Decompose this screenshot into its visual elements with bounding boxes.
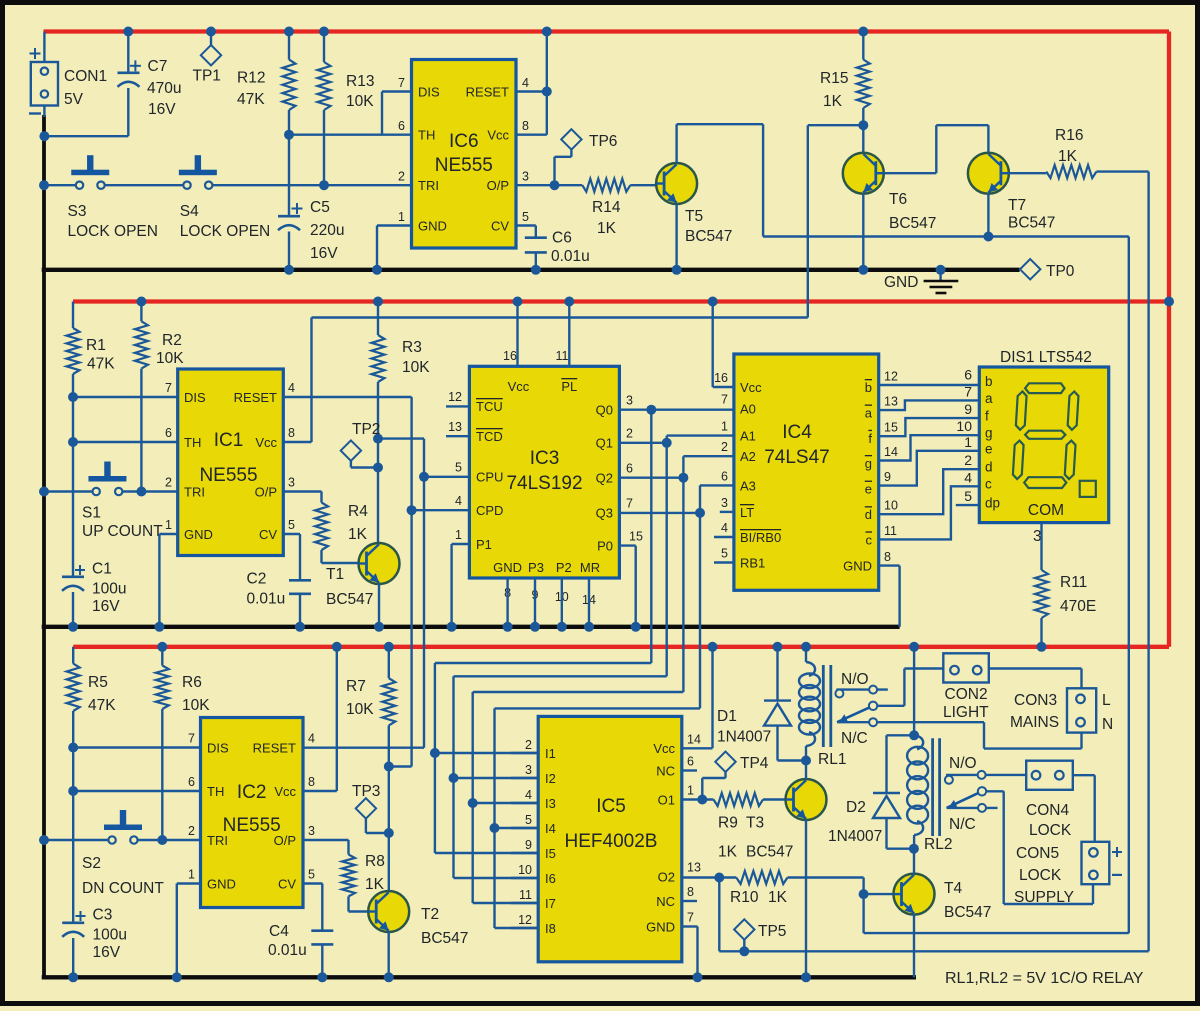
svg-text:TRI: TRI [184, 485, 205, 500]
svg-text:N/O: N/O [949, 755, 977, 772]
svg-text:DN COUNT: DN COUNT [82, 880, 164, 897]
svg-text:Vcc: Vcc [274, 784, 296, 799]
capacitor C4 0.01u [303, 882, 323, 884]
wire T3 emitter to ground [805, 820, 807, 978]
wire IC2 RESET to clock net [303, 747, 424, 749]
svg-text:DIS1 LTS542: DIS1 LTS542 [1000, 349, 1092, 366]
svg-text:T5: T5 [685, 208, 703, 225]
wire T4 collector [913, 849, 915, 874]
svg-text:RL2: RL2 [924, 836, 952, 853]
wire P1 pin1 to ground [452, 543, 470, 545]
svg-text:47K: 47K [88, 697, 116, 714]
svg-text:15: 15 [884, 421, 898, 435]
wire IC6 GND pin1 to ground [377, 224, 412, 226]
wire clock branch to CPU and IC2 RESET [378, 437, 424, 439]
svg-text:TH: TH [207, 784, 224, 799]
wire IC3 GND pin8 [506, 578, 508, 627]
test point TP2 [341, 440, 361, 460]
svg-text:I5: I5 [545, 846, 556, 861]
transistor T2 BC547 [368, 891, 409, 932]
wire ground top rail (black) [42, 268, 1020, 272]
svg-text:T3: T3 [746, 815, 764, 832]
svg-text:RESET: RESET [253, 741, 296, 756]
junction R6/TRI2 [157, 835, 167, 845]
svg-text:1N4007: 1N4007 [828, 828, 882, 845]
svg-text:d: d [985, 460, 993, 475]
resistor R8 1K [342, 855, 355, 897]
wire f segment 15 [879, 418, 981, 436]
pin stub RL2 N/C [947, 807, 998, 809]
junction IC2 gnd [172, 972, 182, 982]
svg-text:C2: C2 [247, 571, 267, 588]
svg-text:NE555: NE555 [435, 155, 493, 176]
svg-text:GND: GND [207, 877, 236, 892]
wire T7 emitter junction [987, 194, 989, 237]
svg-text:3: 3 [522, 170, 529, 184]
svg-text:7: 7 [687, 911, 694, 925]
svg-text:BC547: BC547 [1008, 215, 1055, 232]
svg-text:TP4: TP4 [740, 755, 769, 772]
junction T4 base [859, 889, 869, 899]
svg-text:S4: S4 [180, 203, 199, 220]
junction T2 emitter gnd [384, 972, 394, 982]
junction R7/TP3 [384, 828, 394, 838]
svg-text:2: 2 [398, 170, 405, 184]
wire +5V middle rail (red) [73, 299, 1169, 303]
svg-text:SUPPLY: SUPPLY [1014, 889, 1074, 906]
svg-text:LOCK OPEN: LOCK OPEN [68, 223, 158, 240]
wire T3 collector to RL1 [805, 761, 807, 780]
svg-text:11: 11 [556, 349, 569, 363]
svg-text:9: 9 [525, 838, 532, 852]
svg-text:4: 4 [288, 381, 295, 395]
wire g segment 14 [879, 435, 981, 460]
svg-text:7: 7 [626, 497, 633, 511]
svg-text:9: 9 [884, 470, 891, 484]
junction C1 ground [68, 622, 78, 632]
svg-text:6: 6 [964, 367, 972, 383]
wire R14 to T5 base [630, 184, 656, 186]
svg-text:RB1: RB1 [740, 556, 765, 571]
svg-text:8: 8 [288, 426, 295, 440]
svg-text:3: 3 [721, 496, 728, 510]
svg-text:6: 6 [188, 775, 195, 789]
svg-text:O/P: O/P [255, 485, 277, 500]
junction CPU branch [419, 472, 429, 482]
svg-text:16V: 16V [148, 101, 176, 118]
svg-text:2: 2 [964, 452, 972, 468]
svg-text:LOCK: LOCK [1019, 867, 1062, 884]
svg-text:T1: T1 [326, 566, 344, 583]
svg-text:f: f [868, 431, 872, 446]
svg-text:12: 12 [884, 370, 898, 384]
wire IC5 Vcc pin14 to +5V [682, 747, 713, 749]
svg-text:0.01u: 0.01u [268, 942, 307, 959]
resistor R12 47K [288, 32, 290, 60]
wire IC4 Vcc pin16 to +5V [712, 302, 714, 388]
svg-text:2: 2 [525, 738, 532, 752]
svg-text:6: 6 [626, 462, 633, 476]
relay RL2 coil [914, 735, 923, 749]
svg-text:CPD: CPD [476, 503, 503, 518]
svg-text:6: 6 [165, 426, 172, 440]
wire IC3 P3 pin9 [534, 578, 536, 627]
svg-text:47K: 47K [87, 356, 115, 373]
svg-text:5: 5 [522, 210, 529, 224]
svg-text:11: 11 [884, 524, 897, 538]
svg-text:A1: A1 [740, 429, 756, 444]
svg-text:0.01u: 0.01u [247, 591, 286, 608]
junction dots on bottom +5V rail [157, 642, 167, 652]
svg-text:N/C: N/C [841, 730, 868, 747]
svg-text:13: 13 [448, 420, 462, 434]
svg-text:a: a [865, 406, 873, 421]
wire e segment 9 [879, 451, 981, 486]
svg-text:MR: MR [580, 560, 600, 575]
svg-text:1K: 1K [718, 844, 738, 861]
svg-text:TCU: TCU [476, 399, 503, 414]
wire ground bottom rail (black) [42, 975, 916, 979]
svg-text:COM: COM [1028, 502, 1064, 519]
junction TP6/OP [550, 180, 560, 190]
svg-text:S3: S3 [68, 203, 87, 220]
svg-text:TP1: TP1 [193, 68, 221, 85]
wire CON2 to CON3 [989, 667, 1082, 669]
connector CON2 [943, 653, 989, 682]
svg-text:GND: GND [884, 274, 918, 291]
wire IC6 RESET4-Vcc8 to +5V [516, 90, 547, 92]
svg-text:T6: T6 [889, 191, 907, 208]
counter IC3 74LS192 box [469, 366, 619, 578]
svg-text:3: 3 [525, 763, 532, 777]
svg-text:R11: R11 [1060, 574, 1087, 591]
svg-text:HEF4002B: HEF4002B [565, 831, 658, 852]
svg-text:1K: 1K [768, 889, 788, 906]
svg-text:CON2: CON2 [945, 686, 988, 703]
svg-text:220u: 220u [310, 222, 344, 239]
svg-text:4: 4 [455, 494, 462, 508]
svg-text:I4: I4 [545, 821, 556, 836]
svg-text:15: 15 [629, 530, 643, 544]
junction gnd symbol [936, 265, 946, 275]
wire T1 emitter [378, 584, 380, 627]
wire IC3 PL pin11 to +5V [568, 302, 570, 367]
svg-text:TP6: TP6 [589, 133, 617, 150]
svg-text:IC5: IC5 [596, 796, 626, 817]
wire COM to R11 [1040, 523, 1042, 570]
wire DIS line IC2 [73, 746, 200, 748]
wire O1 to R9 [682, 798, 714, 800]
resistor R16 1K [1046, 165, 1096, 178]
svg-text:74LS192: 74LS192 [506, 473, 582, 494]
wire RL1 pole to CON2 [877, 705, 905, 707]
connector CON1 [43, 32, 45, 63]
svg-text:D1: D1 [717, 708, 737, 725]
wire Q1 to A1 and I2/I6 bus [619, 442, 666, 444]
svg-text:14: 14 [884, 445, 898, 459]
svg-text:10K: 10K [182, 697, 210, 714]
svg-text:e: e [865, 482, 872, 497]
test point TP5 [734, 919, 754, 939]
svg-text:I7: I7 [545, 896, 556, 911]
junction reset/vcc [542, 87, 552, 97]
svg-text:c: c [866, 532, 873, 547]
svg-text:GND: GND [184, 527, 213, 542]
junction C2 gnd [295, 622, 305, 632]
svg-text:TP5: TP5 [758, 923, 786, 940]
junction T1 emitter gnd [374, 622, 384, 632]
wire +5V bottom rail (red) [73, 645, 1169, 649]
wire T5 collector to T4 base net [675, 124, 677, 163]
svg-text:5: 5 [964, 488, 972, 504]
svg-text:1: 1 [721, 420, 728, 434]
junction dots on middle +5V rail [136, 297, 146, 307]
junction IC6 gnd [372, 265, 382, 275]
wire CPU pin5 IC3 [424, 476, 469, 478]
svg-text:100u: 100u [93, 927, 127, 944]
resistor R5 47K [72, 647, 74, 664]
svg-text:12: 12 [518, 913, 532, 927]
svg-text:1N4007: 1N4007 [717, 729, 771, 746]
svg-text:5: 5 [455, 461, 462, 475]
svg-text:O2: O2 [658, 870, 675, 885]
junction R5/DIS2 [68, 743, 78, 753]
svg-text:CV: CV [491, 219, 509, 234]
svg-text:1: 1 [188, 868, 195, 882]
wire +5V to RL2 coil [913, 647, 915, 736]
svg-text:16: 16 [503, 349, 517, 363]
svg-text:16: 16 [714, 371, 728, 385]
junction R12/TH [284, 130, 294, 140]
svg-text:T7: T7 [1008, 197, 1026, 214]
svg-text:0.01u: 0.01u [551, 248, 590, 265]
svg-text:R13: R13 [346, 73, 374, 90]
transistor T4 BC547 [894, 874, 935, 915]
svg-text:TH: TH [184, 435, 201, 450]
svg-text:RESET: RESET [234, 390, 277, 405]
svg-text:D2: D2 [846, 799, 866, 816]
svg-text:R3: R3 [402, 339, 422, 356]
wire IC3 Vcc pin16 to +5V [516, 302, 518, 367]
svg-text:P0: P0 [597, 539, 613, 554]
junction dots on top +5V rail [123, 27, 133, 37]
svg-text:7: 7 [964, 383, 972, 399]
test point TP4 [715, 752, 735, 772]
switch S2 [44, 839, 108, 841]
pin stub TCD 13 [446, 435, 469, 437]
svg-text:R1: R1 [86, 337, 106, 354]
wire +5V right vertical rail (red) [1167, 32, 1171, 647]
svg-text:5: 5 [288, 518, 295, 532]
svg-text:TRI: TRI [207, 833, 228, 848]
svg-text:b: b [985, 374, 993, 389]
wire Q0 to A0 and I1/I5 bus [619, 409, 734, 411]
wire IC2 GND to ground [177, 882, 201, 884]
wire IC2 OP to R8 [303, 839, 349, 841]
wire T5 emitter to ground [675, 204, 677, 270]
svg-text:10: 10 [518, 863, 532, 877]
svg-text:LOCK OPEN: LOCK OPEN [180, 223, 270, 240]
svg-text:3: 3 [626, 394, 633, 408]
switch S3 [44, 184, 76, 186]
junction RESET/CPD [407, 505, 417, 515]
svg-text:2: 2 [721, 440, 728, 454]
svg-text:P2: P2 [556, 560, 572, 575]
svg-text:1: 1 [687, 784, 694, 798]
pin stub TCU 12 [446, 405, 469, 407]
svg-text:O/P: O/P [274, 833, 296, 848]
svg-text:e: e [985, 442, 993, 457]
wire d segment 10 [879, 469, 981, 514]
svg-text:1: 1 [455, 528, 462, 542]
svg-text:R14: R14 [592, 199, 621, 216]
svg-text:Vcc: Vcc [653, 741, 675, 756]
svg-text:LOCK: LOCK [1029, 822, 1072, 839]
wire Q2 to A2 and I3/I7 bus [619, 477, 683, 479]
svg-text:I1: I1 [545, 746, 556, 761]
junction S1 ground rail [39, 487, 49, 497]
transistor T5 BC547 [656, 163, 697, 204]
wire DIS line IC1 [73, 396, 178, 398]
svg-text:TCD: TCD [476, 429, 503, 444]
wire IC3 P2 pin10 [561, 578, 563, 627]
svg-text:BC547: BC547 [421, 930, 468, 947]
svg-text:DIS: DIS [184, 390, 206, 405]
svg-text:BC547: BC547 [685, 228, 732, 245]
svg-text:C7: C7 [148, 58, 168, 75]
wire T7 base to R16 [1009, 172, 1047, 174]
svg-text:TP3: TP3 [352, 783, 380, 800]
svg-text:GND: GND [646, 920, 675, 935]
resistor R14 1K [582, 179, 630, 192]
wire IC5 GND pin7 to ground [682, 925, 698, 927]
test point TP6 [561, 129, 581, 149]
svg-text:C6: C6 [552, 230, 572, 247]
svg-text:CON5: CON5 [1016, 845, 1059, 862]
svg-text:4: 4 [522, 76, 529, 90]
svg-text:A0: A0 [740, 402, 756, 417]
junction O2/R16 net [714, 873, 724, 883]
svg-text:I6: I6 [545, 871, 556, 886]
junction RL2/T4/D2 [909, 844, 919, 854]
svg-text:RESET: RESET [466, 85, 509, 100]
junction O1/TP4 [697, 795, 707, 805]
wire S2 to TRI IC2 [138, 839, 201, 841]
svg-text:a: a [985, 391, 993, 406]
resistor R13 10K [323, 32, 325, 63]
svg-text:470u: 470u [147, 80, 181, 97]
junction R7/IC1-RESET net [384, 762, 394, 772]
svg-text:DIS: DIS [207, 741, 229, 756]
svg-text:74LS47: 74LS47 [764, 447, 830, 468]
svg-text:BC547: BC547 [889, 215, 936, 232]
relay RL1 coil [805, 647, 807, 662]
svg-text:R5: R5 [88, 674, 108, 691]
capacitor C6 0.01u [516, 224, 536, 226]
wire TH-DIS link IC6 [289, 133, 382, 135]
wire S4 to TRI IC6 [212, 184, 411, 186]
svg-text:7: 7 [398, 76, 405, 90]
svg-text:3: 3 [308, 824, 315, 838]
svg-text:4: 4 [721, 521, 728, 535]
svg-text:6: 6 [721, 469, 728, 483]
wire IC6 O/P to R14 [516, 184, 582, 186]
svg-text:2: 2 [165, 476, 172, 490]
svg-text:LIGHT: LIGHT [943, 704, 989, 721]
wire c segment 11 [879, 486, 981, 539]
svg-text:1K: 1K [365, 876, 385, 893]
test point TP0 [1020, 259, 1040, 279]
svg-text:TP2: TP2 [352, 421, 380, 438]
svg-text:S2: S2 [82, 855, 101, 872]
svg-text:IC3: IC3 [530, 448, 560, 469]
transistor T1 BC547 [359, 543, 400, 584]
junction R5/TH2 [68, 786, 78, 796]
junction RL2 coil top [909, 730, 919, 740]
svg-text:Q2: Q2 [596, 471, 613, 486]
op-amp IC6 NE555 box [412, 60, 517, 249]
wire R16 to O2 net [1096, 170, 1148, 172]
svg-text:GND: GND [493, 560, 522, 575]
svg-text:5: 5 [308, 868, 315, 882]
wire IC3 MR pin14 [588, 578, 590, 627]
connector CON3 [1067, 688, 1096, 732]
junction R15/T6 collector [858, 120, 868, 130]
svg-text:1K: 1K [348, 526, 368, 543]
junction T5 emitter [672, 265, 682, 275]
wire Q3 to A3 and I4/I8 bus [619, 512, 700, 514]
svg-text:R6: R6 [182, 674, 202, 691]
wire IC1 RESET to CPD/R7 net [283, 396, 411, 398]
svg-text:4: 4 [308, 732, 315, 746]
svg-text:13: 13 [687, 861, 701, 875]
svg-text:I3: I3 [545, 796, 556, 811]
svg-text:T2: T2 [421, 906, 439, 923]
svg-text:4: 4 [525, 788, 532, 802]
svg-text:T4: T4 [944, 880, 962, 897]
junction C3 ground [68, 972, 78, 982]
pin stub NC 6 [682, 769, 697, 771]
svg-text:TH: TH [418, 128, 435, 143]
junction R3/clock branch [373, 434, 383, 444]
svg-text:8: 8 [522, 119, 529, 133]
svg-text:IC1: IC1 [214, 430, 244, 451]
junction C6 gnd [531, 265, 541, 275]
capacitor C1 100u [62, 575, 84, 578]
junction R13/TRI [319, 180, 329, 190]
svg-text:LT: LT [740, 505, 754, 520]
svg-text:O1: O1 [658, 793, 675, 808]
svg-text:7: 7 [721, 393, 728, 407]
svg-text:RL1: RL1 [818, 751, 846, 768]
svg-text:14: 14 [687, 732, 701, 746]
svg-text:CON1: CON1 [64, 68, 107, 85]
wire RL2 pole to CON5 [986, 790, 1004, 792]
wire T2 emitter [388, 931, 390, 977]
junction T3/RL1/D1 [801, 756, 811, 766]
svg-text:2: 2 [188, 824, 195, 838]
svg-text:1K: 1K [823, 93, 843, 110]
transistor T3 BC547 [786, 779, 827, 820]
wire CON4 to CON5 [1073, 774, 1095, 776]
svg-text:R12: R12 [237, 70, 265, 87]
svg-text:7: 7 [188, 732, 195, 746]
wire T6 base to T7 collector [884, 172, 937, 174]
svg-text:L: L [1102, 692, 1111, 709]
pin stub NC 8 [682, 900, 697, 902]
svg-text:9: 9 [964, 401, 972, 417]
svg-text:12: 12 [448, 390, 462, 404]
